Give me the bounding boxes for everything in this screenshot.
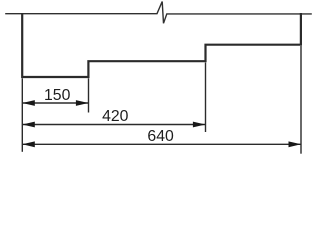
svg-text:150: 150 (44, 87, 71, 104)
svg-text:640: 640 (147, 128, 174, 145)
svg-text:420: 420 (102, 108, 129, 125)
